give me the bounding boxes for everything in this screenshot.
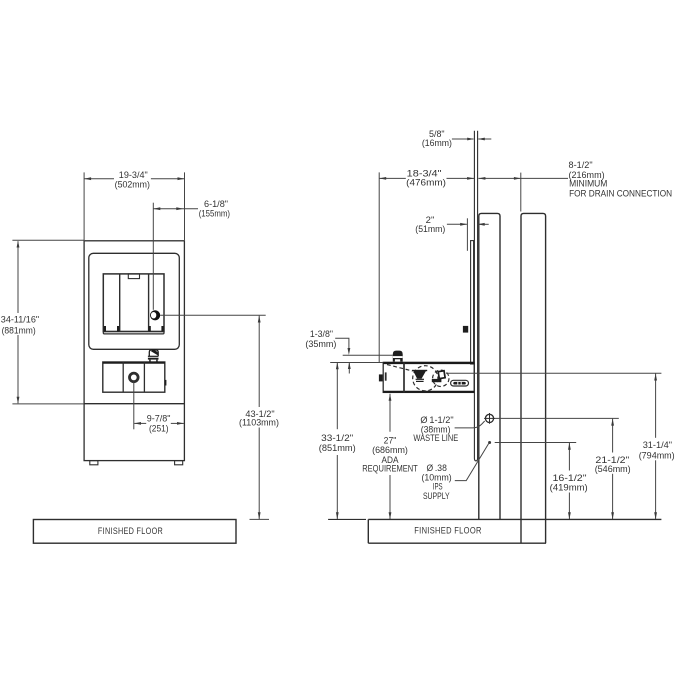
- svg-text:FINISHED FLOOR: FINISHED FLOOR: [414, 526, 482, 537]
- svg-text:(51mm): (51mm): [415, 224, 445, 234]
- svg-text:(546mm): (546mm): [595, 464, 631, 474]
- svg-text:Ø 1-1/2": Ø 1-1/2": [420, 415, 453, 425]
- svg-text:FINISHED FLOOR: FINISHED FLOOR: [98, 526, 163, 537]
- svg-text:SUPPLY: SUPPLY: [423, 491, 450, 501]
- svg-text:(1103mm): (1103mm): [239, 418, 279, 428]
- svg-text:WASTE LINE: WASTE LINE: [413, 433, 458, 443]
- svg-text:(851mm): (851mm): [319, 443, 356, 453]
- svg-text:31-1/4": 31-1/4": [643, 440, 672, 450]
- svg-text:(16mm): (16mm): [422, 138, 452, 148]
- svg-text:(476mm): (476mm): [406, 178, 446, 188]
- svg-text:6-1/8": 6-1/8": [204, 199, 228, 209]
- svg-text:33-1/2": 33-1/2": [321, 433, 353, 443]
- svg-text:(155mm): (155mm): [199, 209, 230, 219]
- svg-text:1-3/8": 1-3/8": [310, 329, 333, 339]
- svg-text:9-7/8": 9-7/8": [147, 413, 171, 423]
- svg-text:(686mm): (686mm): [372, 445, 408, 455]
- svg-text:MINIMUM: MINIMUM: [569, 179, 607, 189]
- svg-text:8-1/2": 8-1/2": [569, 160, 593, 170]
- svg-text:REQUIREMENT: REQUIREMENT: [362, 463, 418, 473]
- svg-text:(502mm): (502mm): [115, 179, 150, 189]
- svg-text:(881mm): (881mm): [2, 325, 36, 335]
- svg-text:(35mm): (35mm): [305, 339, 336, 349]
- svg-text:FOR DRAIN CONNECTION: FOR DRAIN CONNECTION: [569, 188, 672, 198]
- svg-text:34-11/16": 34-11/16": [1, 314, 39, 324]
- svg-text:(794mm): (794mm): [639, 451, 675, 461]
- svg-text:16-1/2": 16-1/2": [553, 473, 587, 483]
- svg-text:(419mm): (419mm): [550, 483, 588, 493]
- svg-text:(251): (251): [149, 424, 169, 434]
